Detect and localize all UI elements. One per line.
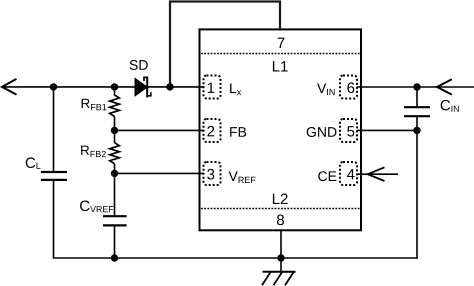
wire CVREF bottom lead — [114, 226, 116, 258]
inductor terminal L2 label — [273, 194, 288, 204]
capacitor CL — [41, 172, 67, 180]
wire VIN rail — [357, 86, 474, 88]
wire CVREF top lead — [114, 173, 116, 215]
input terminal arrow VIN — [437, 79, 452, 94]
pin name FB — [230, 127, 246, 137]
resistor RFB2 — [110, 143, 120, 164]
wire top loop from Lx node to pin 7 — [170, 2, 280, 87]
IC U1 body — [200, 29, 362, 230]
label CVREF — [80, 201, 113, 213]
pin 2 box — [204, 119, 221, 142]
junction node RFB1 top — [111, 83, 118, 90]
junction node ground — [277, 254, 284, 261]
wire RFB1 bottom lead — [114, 117, 116, 131]
inductor terminal L1 label — [273, 61, 288, 71]
pin name GND — [307, 127, 337, 137]
CE input arrow — [368, 167, 385, 181]
wire VREF node to pin 3 — [115, 172, 205, 174]
pin 3 box — [204, 162, 221, 185]
wire CE stub and tail — [358, 173, 399, 175]
pin 2 number — [207, 126, 214, 136]
pin name Lx — [230, 83, 241, 95]
junction node VIN — [413, 83, 420, 90]
wire ground rail bottom — [53, 257, 418, 259]
junction node VREF — [111, 170, 118, 177]
pin 5 box — [340, 119, 357, 142]
resistor RFB1 — [110, 95, 120, 117]
capacitor CIN — [404, 107, 430, 116]
junction node GND — [413, 127, 420, 134]
wire CIN bottom lead — [416, 117, 418, 130]
pin 4 number — [347, 169, 355, 179]
wire RFB2 top lead — [114, 130, 116, 142]
pin 1 number — [208, 83, 214, 93]
wire RFB2 bottom lead — [114, 164, 116, 174]
wire RFB1 top lead — [114, 87, 116, 96]
junction node FB — [111, 127, 118, 134]
ground symbol — [262, 272, 296, 286]
pin 8 label — [277, 215, 284, 226]
junction node CVREF bottom — [111, 254, 118, 261]
label CL — [26, 157, 41, 168]
wire CIN top lead — [416, 87, 418, 107]
pin 5 number — [347, 126, 354, 136]
wire CL branch lower — [53, 181, 55, 258]
pin 7 label — [278, 38, 285, 48]
IC internal dotted line top — [201, 53, 360, 55]
capacitor CVREF — [103, 216, 127, 225]
junction node Lx diode cathode — [166, 83, 173, 90]
pin name VIN — [317, 83, 335, 95]
label RFB2 — [81, 146, 106, 157]
wire CL branch upper — [53, 87, 55, 171]
label RFB1 — [82, 99, 107, 110]
label SD — [130, 60, 148, 70]
output terminal arrow left — [2, 79, 17, 95]
pin 4 box — [340, 162, 357, 185]
pin name VREF — [229, 171, 256, 183]
wire GND pin 5 rail — [357, 129, 417, 131]
pin 1 box — [204, 76, 221, 99]
junction node CL top — [50, 83, 57, 90]
IC internal dotted line bottom — [201, 208, 360, 210]
pin 3 number — [207, 169, 214, 180]
diode SD schottky — [135, 77, 151, 98]
pin name CE — [318, 171, 336, 181]
label CIN — [441, 100, 459, 112]
pin 6 number — [347, 82, 354, 93]
wire pin 8 to ground — [280, 231, 282, 272]
wire FB node to pin 2 — [115, 129, 205, 131]
wire right vertical to ground rail — [416, 130, 418, 258]
wire output rail — [2, 86, 204, 88]
pin 6 box — [340, 76, 357, 99]
